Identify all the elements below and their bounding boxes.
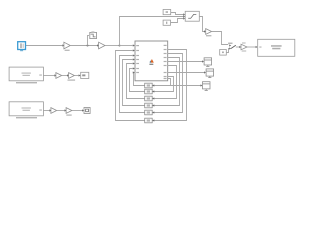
delay block B5 <box>145 110 153 115</box>
plant subsystem U1 <box>135 41 168 81</box>
scope S1 <box>204 58 212 67</box>
feedback ring 4 wire left <box>123 60 145 106</box>
caption under L2 <box>16 117 37 118</box>
arrow into gain K3 <box>204 30 206 32</box>
gain B2 <box>66 108 72 114</box>
ADC block L2 <box>9 102 43 116</box>
feedback ring 6 wire left <box>116 51 145 121</box>
end block E1 <box>81 72 89 78</box>
feedback ring 1 wire left <box>133 73 145 86</box>
wire C3 to manual switch lower input <box>226 49 229 53</box>
arrow into plant from ring 2 <box>133 67 135 69</box>
arrow into delay B1 <box>152 84 154 86</box>
gain K1 label <box>65 50 70 51</box>
wire to scope S2 <box>168 72 204 74</box>
arrow into gain K1 <box>62 44 64 46</box>
label above manual switch input <box>228 43 232 44</box>
delay block B4 <box>145 103 153 108</box>
constant C2 <box>163 20 170 25</box>
feedback ring 1 wire right <box>168 79 171 86</box>
arrow into scope S2 <box>204 71 206 73</box>
wire gain K4 to DAC block <box>247 46 256 48</box>
gain K4 label below <box>242 50 247 51</box>
branch wire up to display D1 <box>88 36 89 46</box>
arrow switch input 2 <box>183 15 185 17</box>
arrow into delay B3 <box>152 97 154 99</box>
ADC block L1 <box>9 67 43 81</box>
arrow into gain B1 <box>67 74 69 76</box>
wire gain K1 to gain K2 <box>70 45 97 47</box>
arrow into plant port u1 <box>133 44 135 46</box>
arrow into scope S3 <box>201 84 203 86</box>
arrow into E1 <box>79 74 81 76</box>
gain K3 label <box>206 35 211 36</box>
gain B2 label <box>66 114 71 115</box>
gain K3 <box>206 29 212 35</box>
junction node <box>87 45 89 47</box>
arrow into plant from ring 4 <box>133 58 135 60</box>
gain A2 <box>51 108 57 114</box>
wire up and right to switch middle input <box>120 17 184 46</box>
wire gain A1 to gain B1 <box>62 75 67 77</box>
source block (blue signal builder) <box>18 42 26 52</box>
caption under L1 <box>16 82 37 83</box>
junction node at elbow <box>119 45 121 47</box>
gain K4 label above <box>242 42 246 43</box>
scope S3 <box>203 82 211 91</box>
wire gain K2 to junction <box>105 45 120 47</box>
switch block SW1 <box>185 11 199 21</box>
feedback ring 4 wire right <box>152 58 179 106</box>
gain K4 <box>241 44 247 50</box>
display block D1 <box>90 31 97 38</box>
arrow into delay B6 <box>152 119 154 121</box>
delay block B3 <box>145 96 153 101</box>
arrow into plant from ring 6 <box>133 49 135 51</box>
delay block B6 <box>145 118 153 123</box>
gain K1 <box>64 42 70 49</box>
wire L2 to gain A2 <box>43 110 49 112</box>
plant icon (orange) <box>150 59 154 63</box>
arrow into delay B5 <box>152 111 154 113</box>
scope S2 <box>206 69 214 78</box>
wire C2 to switch input 3 <box>171 19 184 23</box>
wire source to gain K1 <box>26 45 62 47</box>
DAC output block <box>258 39 295 56</box>
manual switch MS1 <box>229 44 239 49</box>
arrow into gain A2 <box>49 109 51 111</box>
feedback ring 2 wire right <box>152 77 173 92</box>
wire gain K3 down to manual switch <box>212 32 229 45</box>
plant left port labels <box>136 45 139 73</box>
arrow into plant from ring 3 <box>133 62 135 64</box>
arrow into delay B4 <box>152 104 154 106</box>
feedback ring 3 wire left <box>127 64 145 99</box>
row 1 wire through to scope S3 <box>152 85 201 87</box>
wire gain B2 to end block E2 <box>72 110 82 112</box>
feedback ring 2 wire left <box>130 69 145 92</box>
arrow switch input 3 <box>183 17 185 19</box>
wire gain B1 to end block E1 <box>74 75 78 77</box>
wire C1 to switch input 1 <box>171 13 184 15</box>
constant C1 <box>163 10 171 15</box>
arrow into plant from ring 1 <box>133 71 135 73</box>
gain K2 <box>99 42 105 49</box>
arrow switch input 1 <box>183 13 185 15</box>
wire L1 to gain A1 <box>43 75 54 77</box>
feedback ring 6 wire right <box>152 50 186 121</box>
arrow into gain A1 <box>54 74 56 76</box>
feedback ring 3 wire right <box>152 66 176 99</box>
arrow into gain K4 <box>239 46 241 48</box>
arrow into DAC block <box>256 46 258 48</box>
arrow into scope S1 <box>202 60 204 62</box>
wire to scope S1 <box>168 61 202 63</box>
delay block B1 <box>145 83 153 88</box>
arrow into plant from ring 5 <box>133 54 135 56</box>
wire continuing right into plant input u1 <box>120 45 133 47</box>
gain B1 label <box>68 79 76 80</box>
feedback ring 5 wire left <box>120 56 145 113</box>
delay block B2 <box>145 89 153 94</box>
wire gain A2 to gain B2 <box>57 110 65 112</box>
arrow into gain B2 <box>65 109 67 111</box>
arrow into E2 <box>82 109 84 111</box>
gain A1 <box>56 73 62 79</box>
plant right port labels <box>164 45 167 79</box>
arrow into delay B2 <box>152 90 154 92</box>
feedback ring 5 wire right <box>152 54 182 113</box>
gain B1 <box>69 73 75 79</box>
end block E2 (terminator) <box>84 108 90 114</box>
plant icon caption <box>149 64 153 65</box>
constant C3 <box>220 50 227 56</box>
wire switch output down to gain K3 <box>199 17 204 32</box>
arrow into gain K2 <box>97 44 99 46</box>
